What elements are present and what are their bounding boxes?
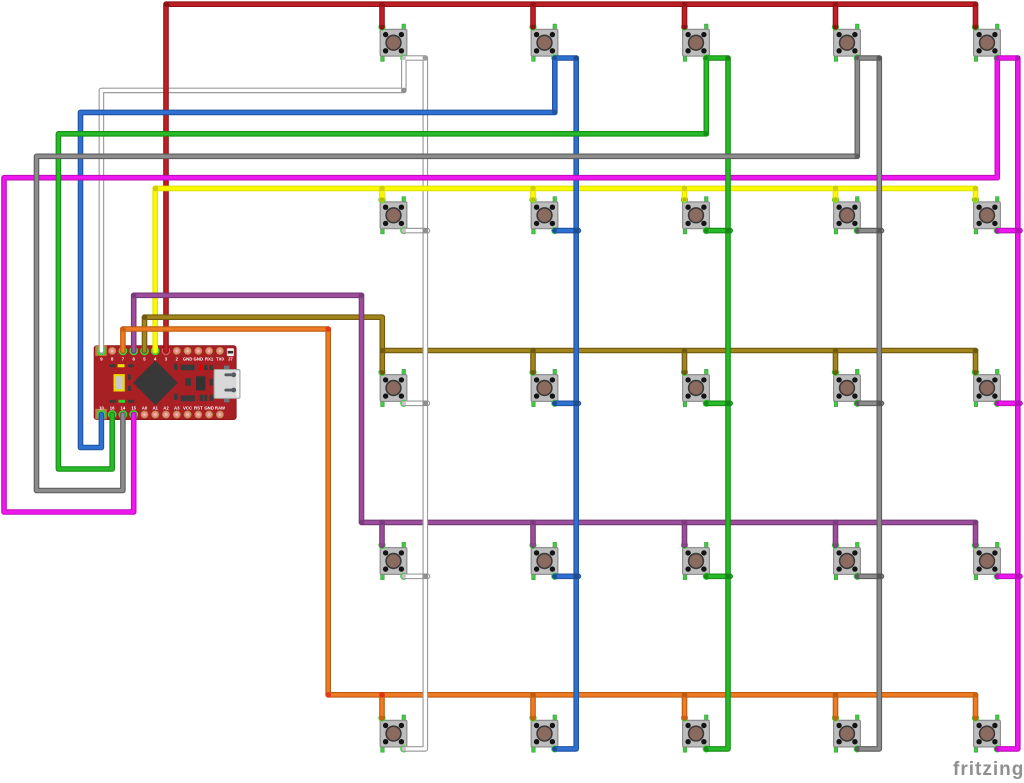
svg-text:GND: GND (183, 357, 193, 362)
svg-text:16: 16 (110, 406, 115, 411)
svg-text:GND: GND (194, 357, 204, 362)
svg-text:RX1: RX1 (205, 357, 214, 362)
svg-text:RAW: RAW (215, 406, 226, 411)
svg-text:RST: RST (194, 406, 203, 411)
svg-text:TX0: TX0 (216, 357, 224, 362)
svg-text:A1: A1 (152, 406, 158, 411)
svg-text:A2: A2 (163, 406, 169, 411)
svg-text:10: 10 (99, 406, 104, 411)
svg-text:A0: A0 (142, 406, 148, 411)
svg-text:fritzing: fritzing (953, 759, 1024, 780)
svg-text:VCC: VCC (183, 406, 192, 411)
svg-text:15: 15 (131, 406, 136, 411)
svg-text:14: 14 (121, 406, 126, 411)
svg-text:A3: A3 (174, 406, 180, 411)
svg-text:J7: J7 (228, 357, 233, 362)
svg-text:GND: GND (204, 406, 214, 411)
